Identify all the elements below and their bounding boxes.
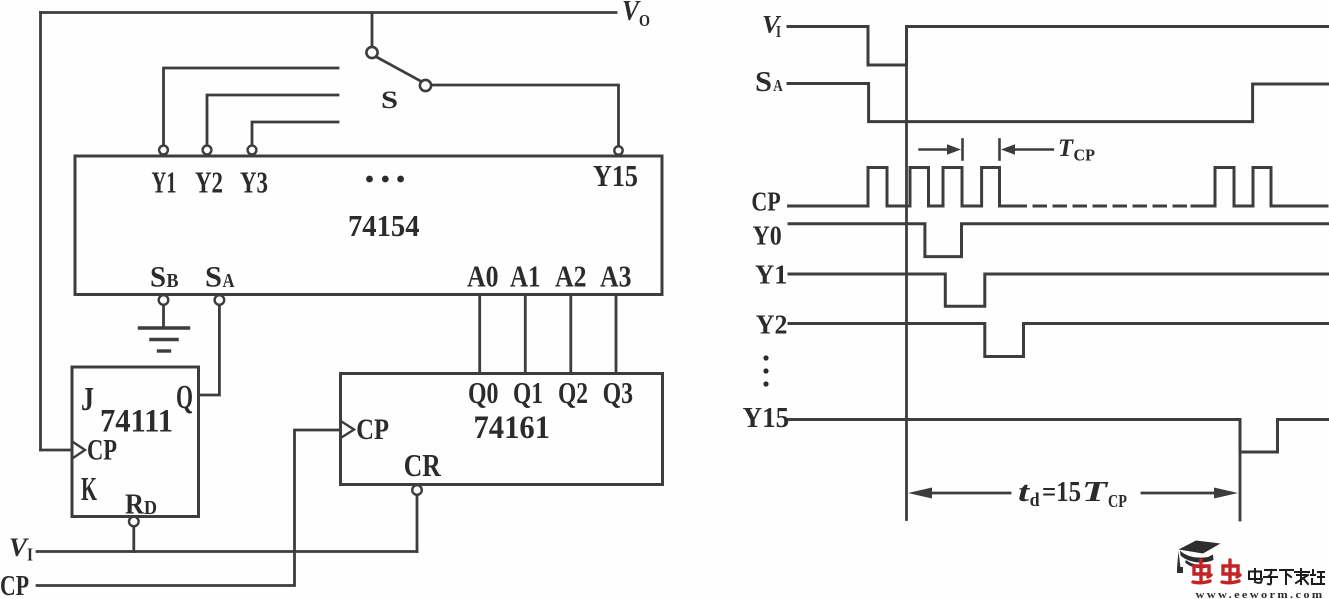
timing: label T_CP [1058,135,1095,165]
svg-text:S: S [381,87,398,114]
wire Y1 feed [164,68,339,145]
node V_O label [622,0,650,30]
switch S stem wire [371,13,374,46]
svg-text:Y2: Y2 [756,310,788,340]
terminal SA [215,295,225,305]
terminal Y1 [159,146,168,155]
timing: label V_I [762,12,782,42]
timing: waveform Y0 [789,224,1328,257]
IC U3 74161 box [341,374,663,485]
ground [140,305,189,351]
svg-text:A: A [223,270,235,292]
timing: waveform Y1 [789,274,1328,306]
pin label SB [150,261,179,294]
terminal CR [412,485,422,495]
IC U2 74111 box [72,367,199,517]
svg-text:S: S [755,67,772,98]
pin label K [81,471,97,508]
pin label Q [176,379,193,416]
svg-text:Q: Q [176,379,193,416]
terminal SB [159,295,169,305]
svg-text:Q2: Q2 [558,375,588,410]
timing: T_CP dimension arrows [920,140,1053,160]
svg-text:S: S [205,261,222,294]
pin label CP of 74161 with clock mark [342,413,390,446]
switch S blade [377,57,421,81]
timing: dimension boundary line at Y15 pulse [1239,420,1242,521]
timing: waveform Y15 [789,420,1328,453]
svg-text:Y15: Y15 [593,158,638,193]
wire A2 [569,295,572,373]
svg-text:Y1: Y1 [755,260,787,290]
timing: waveform V_I [788,27,1329,66]
svg-text:Y3: Y3 [240,165,268,200]
svg-text:A0: A0 [467,259,499,294]
wire Y3 feed [252,122,338,145]
svg-text:A: A [773,76,783,95]
svg-text:A1: A1 [510,259,541,294]
svg-text:Q3: Q3 [603,375,634,410]
pin label Y3 [240,165,268,200]
svg-text:CP: CP [1074,146,1096,165]
svg-text:www.eeworm.com: www.eeworm.com [1196,590,1325,599]
svg-text:Y2: Y2 [195,165,223,200]
IC U1 74154 box [75,156,662,295]
timing: label Y2 [756,310,788,340]
terminal Y3 [248,146,257,155]
svg-text:T: T [1058,135,1075,162]
pin label CP of 74111 with clock mark [73,434,117,467]
svg-text:S: S [150,261,166,294]
svg-text:74161: 74161 [474,410,551,446]
wire V_I rail [37,550,417,553]
svg-text:CP: CP [87,434,117,467]
wire V_O top rail [41,11,617,14]
timing: label Y15 [743,402,790,434]
timing: label Y1 [755,260,787,290]
pin label Q1 [513,375,543,410]
svg-text:I: I [27,545,33,565]
wire left feedback rail [39,13,42,451]
timing: label Y0 [753,221,782,251]
svg-text:D: D [144,497,157,519]
svg-text:Q0: Q0 [468,375,499,410]
timing: label t_d=15T_CP [1018,477,1127,511]
wire A0 [478,295,481,373]
pin label CR [404,447,442,483]
svg-text:CR: CR [404,447,442,483]
wire A3 [615,295,618,373]
wire A1 [524,295,527,373]
timing: label S_A [755,67,783,98]
pin label A0 [467,259,499,294]
switch S contact 2 [420,80,431,91]
timing: reference line t0 [905,45,908,520]
timing: waveform CP [789,168,1327,207]
value label 74154 [348,208,420,243]
wire CR drop [416,495,419,552]
switch S contact 1 [366,47,377,58]
logo graduation cap [1177,541,1221,574]
svg-text:K: K [81,471,97,508]
pin label Y1 [152,165,177,200]
pin label A3 [600,259,632,294]
svg-text:J: J [81,381,94,418]
ellipsis inside 74154 [366,176,404,183]
svg-text:CP: CP [0,570,29,599]
svg-text:Q1: Q1 [513,375,543,410]
svg-text:Y1: Y1 [152,165,177,200]
svg-text:I: I [776,22,781,41]
logo text 电子下载站 (drawn) [1249,569,1324,584]
logo text 虫虫 (drawn) [1193,560,1240,583]
svg-text:d: d [1030,490,1040,511]
pin label A1 [510,259,541,294]
wire RD to VI rail [132,527,135,552]
pin label Y15 [593,158,638,193]
pin label RD [125,489,157,521]
pin label J [81,381,94,418]
wire 74111 CP lead [41,449,72,452]
pin label A2 [555,259,587,294]
label S [381,87,398,114]
wire SA to Q [200,305,220,395]
wire Y2 feed [207,95,338,145]
svg-text:74154: 74154 [348,208,420,243]
value label 74111 [100,404,173,440]
terminal Y15 [614,146,622,154]
pin label Y2 [195,165,223,200]
pin label Q3 [603,375,634,410]
terminal RD [129,517,139,527]
node CP label [0,570,29,599]
logo url www.eeworm.com [1196,590,1325,599]
svg-text:O: O [639,11,650,30]
wire CP rail [37,430,339,586]
timing: label CP [751,187,780,217]
svg-text:A2: A2 [555,259,587,294]
svg-text:CP: CP [1108,491,1127,511]
svg-text:A3: A3 [600,259,632,294]
timing: t_d dimension arrow [908,488,1238,499]
svg-text:CP: CP [751,187,780,217]
timing: vertical ellipsis [763,355,768,386]
svg-text:T: T [1082,477,1110,508]
value label 74161 [474,410,551,446]
svg-text:CP: CP [356,413,389,446]
svg-text:Y15: Y15 [743,402,790,434]
svg-text:B: B [167,270,179,292]
terminal Y2 [203,146,212,155]
timing: waveform Y2 [789,324,1328,357]
node V_I label [9,533,33,565]
pin label Q2 [558,375,588,410]
pin label SA [205,261,235,294]
timing: waveform S_A [788,84,1329,122]
svg-text:=15: =15 [1042,477,1081,508]
wire switch to Y15 [432,85,619,146]
pin label Q0 [468,375,499,410]
svg-text:Y0: Y0 [753,221,782,251]
